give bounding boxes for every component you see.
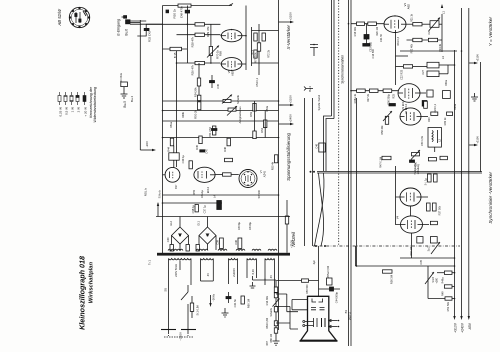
wire: from top bus down — [139, 20, 141, 150]
tube V5 (stabiliser triode) — [163, 167, 180, 188]
svg-text:R53a: R53a — [266, 105, 269, 112]
svg-text:0,25 W: 0,25 W — [59, 107, 63, 117]
capacitor C56 350p — [388, 93, 396, 106]
wire: +310V main rail (vertical) — [278, 0, 280, 330]
svg-text:1 W: 1 W — [71, 107, 75, 113]
svg-text:R34 20k: R34 20k — [194, 87, 198, 97]
svg-text:C44 500p: C44 500p — [335, 291, 339, 303]
arrow: L1 top feed — [441, 4, 443, 8]
resistor R30 1k — [178, 4, 191, 7]
capacitor C31 — [422, 101, 427, 107]
rectifier bridge Gl.2 — [169, 217, 189, 251]
svg-text:+310V: +310V — [476, 136, 480, 144]
svg-text:R51 50k: R51 50k — [447, 301, 450, 311]
svg-text:~50Hz: ~50Hz — [212, 293, 216, 301]
resistor R21 1k — [413, 23, 422, 26]
svg-text:R31 0,3: R31 0,3 — [397, 36, 400, 45]
capacitor C36a — [417, 237, 423, 243]
node dots on rails — [162, 23, 463, 299]
resistor R28 47k — [195, 33, 205, 36]
svg-text:R72 2k: R72 2k — [268, 49, 271, 58]
wire: left stage bus — [162, 6, 164, 254]
arrow +310V mid — [279, 104, 291, 106]
svg-text:R55a 0,5M: R55a 0,5M — [327, 266, 330, 278]
svg-text:C41 5n: C41 5n — [233, 298, 237, 307]
svg-text:C36: C36 — [234, 239, 238, 244]
resistor R19 — [357, 22, 365, 25]
svg-text:R27 2k: R27 2k — [367, 93, 370, 102]
svg-text:V7: V7 — [259, 169, 263, 173]
svg-text:+310V: +310V — [289, 12, 293, 21]
wire: L1 feed — [441, 14, 443, 52]
svg-text:817: 817 — [174, 184, 178, 189]
resistor R27 — [369, 89, 378, 92]
svg-text:-65V: -65V — [468, 322, 472, 330]
svg-text:Schärfe: Schärfe — [270, 307, 273, 316]
svg-text:R45: R45 — [195, 144, 199, 149]
wire: sync pair jog — [324, 116, 335, 171]
svg-text:R49a: R49a — [442, 277, 445, 284]
wire: anode line h4 — [163, 137, 279, 139]
wire: crt feed — [356, 265, 455, 267]
svg-text:R66 1M: R66 1M — [270, 334, 273, 343]
svg-text:R21 1k: R21 1k — [411, 13, 414, 22]
svg-text:E-Eingang: E-Eingang — [117, 19, 121, 36]
label -20V arrow — [140, 149, 152, 151]
svg-text:220V 50Hz: 220V 50Hz — [174, 263, 178, 277]
wire: right edge rail — [480, 62, 482, 172]
resistor R45 on h4 — [199, 136, 202, 144]
svg-text:+310V: +310V — [454, 322, 458, 333]
wire: supply branch — [304, 98, 306, 246]
resistor R26a — [357, 89, 366, 92]
svg-text:+160: +160 — [436, 277, 439, 283]
svg-text:R14 30k: R14 30k — [266, 295, 269, 305]
potentiometer R69/R70 — [207, 46, 223, 59]
potentiometer Helligkeit — [411, 150, 420, 175]
resistor R50 (between h1 and h2) — [198, 102, 201, 110]
svg-text:Kleinoszillograph 018: Kleinoszillograph 018 — [78, 256, 87, 330]
capacitor C40 — [166, 237, 173, 251]
wire: rectifier mid line with left arrow — [156, 216, 290, 218]
svg-text:6,3V: 6,3V — [251, 269, 255, 275]
wire: crt anode drop — [318, 246, 320, 296]
svg-text:R25: R25 — [393, 93, 396, 98]
capacitor C49 1uF (paper) — [169, 146, 185, 168]
svg-text:C54 0,1: C54 0,1 — [256, 77, 259, 86]
wire: interstage — [396, 55, 409, 57]
wire: screened horizontal bus (thick) — [317, 170, 482, 172]
svg-text:R26a 1k: R26a 1k — [354, 93, 357, 103]
svg-text:+240V: +240V — [461, 322, 465, 333]
resistor R37 — [433, 203, 437, 211]
svg-text:Schärfe: Schärfe — [236, 94, 240, 103]
wire: V1b anode drop — [198, 63, 200, 101]
transformer secondary 4V winding — [201, 259, 214, 282]
tube V4a — [397, 188, 429, 219]
node dots on deflection bus — [315, 245, 317, 247]
wire: supply branch 2 — [312, 98, 314, 246]
ground symbol (divider bottom) — [273, 341, 280, 345]
svg-text:R77 10k: R77 10k — [254, 52, 258, 63]
svg-text:Synchr. fremd: Synchr. fremd — [318, 94, 321, 110]
svg-text:R67: R67 — [266, 340, 269, 345]
svg-text:R51a: R51a — [170, 121, 173, 128]
svg-text:Gl.1: Gl.1 — [197, 220, 201, 225]
svg-text:2x300V: 2x300V — [232, 268, 236, 277]
svg-text:R20 1M: R20 1M — [376, 27, 379, 36]
svg-text:R32 1k: R32 1k — [444, 117, 447, 126]
wire: grid line 1 — [146, 23, 220, 25]
wire: crossing deflection leads — [319, 173, 324, 246]
svg-text:L3: L3 — [441, 56, 445, 60]
resistor R33 — [403, 65, 412, 68]
wire: anode line h2 — [163, 110, 279, 112]
svg-text:C47: C47 — [205, 148, 209, 153]
svg-text:C38 1µ: C38 1µ — [191, 205, 195, 214]
wire: grid line 2 — [177, 34, 221, 36]
wire: divider top feed — [253, 276, 277, 288]
transformer secondary winding 4 — [247, 259, 257, 279]
capacitor C13 500 — [363, 44, 375, 59]
CRT deflection plates — [303, 318, 325, 327]
resistor R51 50k — [428, 297, 455, 312]
tube V1 (AB1) — [384, 3, 413, 33]
svg-text:Bu.3: Bu.3 — [308, 86, 312, 92]
wire: anode vertical — [245, 6, 247, 71]
resistor C50 network — [427, 90, 433, 97]
svg-text:Tr.1: Tr.1 — [148, 260, 152, 265]
ground symbol y-amp — [471, 93, 478, 101]
capacitor C48a (bus cap) — [166, 10, 169, 14]
wire: V1-V2 coupling — [395, 30, 397, 85]
ground symbol left of divider — [250, 282, 256, 288]
tube V3 — [400, 108, 428, 125]
svg-text:X-Verstärker: X-Verstärker — [286, 24, 291, 50]
stabiliser column parts — [249, 101, 267, 139]
svg-text:R60 1M: R60 1M — [247, 299, 251, 308]
misc value labels (texture) — [170, 29, 457, 278]
svg-text:C50 1,5k: C50 1,5k — [421, 135, 424, 146]
svg-text:Widerstandsbelastung: Widerstandsbelastung — [93, 87, 97, 123]
tube V1a (EF14) — [220, 29, 246, 42]
resistor R34 — [197, 78, 200, 86]
svg-text:R56 3M: R56 3M — [390, 275, 394, 284]
svg-text:0,5 W: 0,5 W — [65, 107, 69, 115]
wire: mid vertical — [210, 24, 212, 63]
resistor R22 — [413, 38, 422, 41]
wire: top feeder — [163, 5, 233, 7]
wire: +240V distribution with arrow — [461, 8, 463, 316]
tube V6 (stabiliser pentode) — [194, 167, 215, 193]
svg-text:R58 40k: R58 40k — [381, 125, 384, 135]
potentiometer Bildlage on h2 — [227, 106, 242, 124]
capacitor C30 100p — [410, 160, 418, 167]
wire: +310V distribution with arrow — [454, 50, 456, 316]
svg-text:C21 50: C21 50 — [380, 33, 383, 42]
svg-text:R69: R69 — [219, 51, 223, 57]
resistor R71 — [254, 33, 257, 41]
inductor L1 variable — [422, 11, 446, 31]
svg-text:+310V: +310V — [290, 240, 294, 248]
svg-text:R28 47k: R28 47k — [191, 36, 195, 47]
wire: centre double bus — [348, 0, 350, 346]
resistor R26 47k — [195, 61, 205, 64]
resistor R45a 1M — [440, 156, 447, 159]
svg-text:C56 350p: C56 350p — [388, 93, 391, 104]
svg-text:R53: R53 — [249, 111, 253, 116]
svg-text:C39: C39 — [216, 239, 220, 244]
resistor R49 — [442, 285, 455, 296]
svg-text:R22 40k: R22 40k — [411, 43, 414, 53]
wire: Synchronisierwaehler dotted bus — [338, 0, 340, 246]
switch S1 contacts — [310, 44, 318, 56]
transformer core Tr.1 (solid bar) — [157, 253, 290, 256]
svg-text:AB2: AB2 — [407, 4, 411, 10]
node: deflection takeoff dots — [310, 171, 312, 173]
switch Sy.2 arrow across bus — [431, 242, 440, 254]
resistor R68 — [443, 91, 451, 99]
wire: sync takeoff pair — [331, 0, 333, 116]
svg-text:+310V: +310V — [289, 95, 293, 104]
wire: regulator feed vertical — [286, 200, 288, 253]
svg-text:+240V: +240V — [289, 114, 293, 123]
resistor B15 (R35) — [163, 48, 188, 50]
resistor R61 (mains series) — [190, 296, 199, 318]
svg-text:C34 8µ: C34 8µ — [249, 221, 252, 230]
svg-text:-20V: -20V — [145, 141, 149, 147]
arrow +240V mid — [279, 123, 291, 125]
wire: y-amp top link — [400, 50, 457, 52]
resistor R36 — [427, 203, 431, 211]
wire: divider taps to crt socket — [276, 294, 290, 323]
resistor R59 900 — [302, 279, 310, 294]
capacitor C44 500p — [319, 287, 341, 303]
resistor R73 — [254, 50, 257, 58]
inductor L3 block — [427, 56, 455, 77]
resistor R49a — [437, 271, 455, 283]
capacitor C43 (input coupling) — [144, 28, 149, 30]
tube V4b — [401, 216, 430, 233]
resistor R31a — [424, 101, 428, 108]
switch S5 — [164, 285, 189, 326]
wire: x-amp coupling rows — [252, 27, 279, 66]
svg-text:R49: R49 — [442, 291, 445, 296]
wire: netzteil to crt link — [355, 246, 357, 266]
svg-text:Wirkschaltplan: Wirkschaltplan — [89, 262, 95, 304]
wire: stabiliser line h1 — [163, 100, 279, 102]
svg-text:R46: R46 — [223, 146, 227, 151]
svg-text:R26 47k: R26 47k — [191, 64, 195, 75]
resistor R48 between V6 and V7s — [223, 173, 232, 176]
transformer secondary winding 3 — [229, 259, 238, 285]
wire: grid bias row — [277, 280, 319, 282]
resistor R44 on h4 — [170, 138, 173, 146]
capacitor C53 — [364, 24, 373, 52]
wire: grid line 3 — [177, 62, 221, 64]
wire: input to grid — [130, 21, 163, 36]
svg-text:C30: C30 — [415, 161, 418, 166]
resistor R55 on +310 rail — [275, 155, 278, 163]
svg-text:StV100: StV100 — [257, 189, 261, 198]
svg-text:Bu.5: Bu.5 — [123, 101, 127, 108]
inductor L2 assembly — [428, 128, 442, 153]
capacitor C51/C52 pair — [208, 126, 217, 137]
svg-text:Spannungsstabilisierung: Spannungsstabilisierung — [286, 132, 291, 180]
wire: rectifier top line — [163, 202, 223, 204]
connector Bu.6 input socket — [122, 16, 131, 36]
svg-text:R59 900: R59 900 — [306, 284, 309, 294]
tube socket base view V1 (AB 52/W) — [69, 7, 89, 27]
resistor R77 10k — [257, 43, 260, 51]
svg-text:L1: L1 — [442, 11, 446, 15]
transformer primary 220V winding — [169, 259, 192, 301]
tube V1b (EF14) — [220, 58, 246, 72]
svg-text:Bu.6: Bu.6 — [125, 29, 129, 36]
svg-text:C40: C40 — [166, 237, 170, 242]
connector Bu.4 with ground — [119, 73, 134, 102]
svg-text:R19 40k: R19 40k — [354, 26, 357, 36]
resistor R40 — [428, 158, 436, 161]
svg-text:NSL b: NSL b — [144, 188, 148, 197]
resistor R32 1k — [447, 112, 453, 115]
arrow +310V right — [469, 54, 480, 64]
svg-text:Bu.4: Bu.4 — [130, 96, 134, 103]
svg-text:R54: R54 — [260, 127, 264, 132]
svg-text:+ 20 W: + 20 W — [84, 107, 88, 117]
svg-text:Astigmatismus: Astigmatismus — [238, 106, 242, 124]
resistor S-L pair — [425, 174, 438, 185]
svg-text:R37 50k: R37 50k — [439, 205, 442, 215]
wire: y-amp input line — [351, 23, 384, 25]
capacitor C42 — [186, 245, 189, 252]
svg-text:AB2: AB2 — [231, 70, 235, 75]
resistor R43 — [225, 158, 233, 161]
rectifier bridge Gl.1 — [197, 217, 217, 251]
CRT plate pins right — [329, 319, 340, 327]
resistor R56 (crt supply) — [383, 270, 394, 284]
resistor R23 — [431, 112, 438, 115]
inductor L4 (choke, solid) — [217, 201, 222, 210]
label ~50Hz arrow — [209, 293, 215, 307]
svg-text:C46: C46 — [316, 143, 319, 148]
CRT B1 envelope — [300, 296, 338, 341]
switch S4-B — [425, 266, 439, 299]
CRT bias divider chain — [266, 280, 280, 346]
resistor R63 — [196, 245, 199, 252]
svg-text:C48 470p: C48 470p — [180, 6, 184, 19]
resistor R47 — [189, 161, 192, 169]
wire: dash-dot deflection bus — [313, 245, 460, 247]
svg-text:C24 0,1: C24 0,1 — [434, 103, 437, 112]
svg-text:C3a 1µ: C3a 1µ — [201, 189, 204, 198]
svg-text:50 Ohm: 50 Ohm — [119, 73, 123, 82]
svg-text:C25: C25 — [428, 29, 431, 34]
svg-text:R29a: R29a — [454, 103, 457, 110]
resistor R47 0.1M — [380, 156, 392, 168]
svg-text:4V: 4V — [269, 275, 273, 278]
svg-text:R23: R23 — [428, 117, 431, 122]
svg-text:S-L 1µ: S-L 1µ — [425, 177, 428, 185]
wire: anode line h3 — [163, 120, 279, 122]
capacitor C46 — [316, 143, 326, 152]
svg-text:~220V: ~220V — [179, 332, 183, 341]
svg-text:C45: C45 — [216, 83, 220, 88]
resistor R52 above h1 — [198, 95, 201, 100]
svg-text:C13 500: C13 500 — [372, 48, 375, 58]
resistor R39 — [430, 221, 437, 224]
svg-text:C22 R33: C22 R33 — [401, 69, 404, 79]
capacitor C48 470p — [186, 6, 188, 25]
svg-text:C35: C35 — [420, 259, 423, 264]
svg-text:C51 C52: C51 C52 — [208, 126, 212, 137]
wire: screen row — [407, 39, 443, 41]
capacitor C38 1u — [191, 205, 207, 214]
wire: left socket feeds — [292, 300, 308, 310]
svg-text:R64 0,3M: R64 0,3M — [266, 318, 269, 329]
wire: top bus arrow end — [229, 4, 233, 6]
wire: netzteil link — [400, 257, 455, 259]
svg-text:R30 1k: R30 1k — [173, 9, 177, 19]
svg-text:S5: S5 — [164, 288, 168, 292]
node dot — [245, 35, 247, 37]
resistor R38 — [428, 237, 438, 252]
svg-text:C33 8µ: C33 8µ — [238, 221, 241, 230]
svg-text:EF14: EF14 — [206, 186, 210, 193]
svg-text:C37 1µ: C37 1µ — [203, 205, 207, 214]
tube V7 socket view — [239, 170, 261, 199]
svg-text:R50 2k: R50 2k — [194, 109, 198, 118]
CRT heater / cathode — [311, 299, 325, 310]
capacitor C45 — [210, 75, 221, 89]
ground symbol (mains filter) — [222, 308, 229, 317]
capacitor C47 — [200, 150, 205, 152]
svg-text:Y = Verstärker: Y = Verstärker — [488, 17, 493, 47]
potentiometer Schaerfe on h1 — [222, 94, 240, 103]
resistor R58 40k with switch — [381, 111, 392, 135]
legend: resistor wattage marking (Kennzeichnung der Widerstandsbelastung) — [58, 86, 97, 122]
svg-text:R33 C43: R33 C43 — [148, 31, 152, 42]
wire: bias vertical — [186, 24, 188, 63]
svg-text:C49 1µ: C49 1µ — [181, 155, 185, 164]
svg-text:V3 EF14: V3 EF14 — [401, 99, 405, 110]
svg-text:R55 4k: R55 4k — [271, 161, 275, 170]
wire: y-amp left rail — [356, 98, 358, 266]
resistor R24 — [428, 38, 437, 41]
svg-text:4V: 4V — [206, 273, 210, 276]
svg-text:2 W: 2 W — [77, 107, 81, 113]
capacitor C36 — [234, 238, 242, 249]
resistor R46 on h4 — [227, 138, 230, 146]
svg-text:R49b: R49b — [182, 111, 185, 118]
wire: v4 cathode drops — [396, 166, 412, 258]
arrow +310V at L2 — [469, 136, 480, 146]
resistor R29 47k — [195, 23, 205, 26]
svg-text:B 15: B 15 — [173, 52, 177, 58]
svg-text:C27: C27 — [422, 69, 425, 74]
wire: cathode row — [351, 90, 398, 92]
svg-text:R24 4k: R24 4k — [439, 43, 442, 52]
svg-text:Sy.2: Sy.2 — [428, 246, 431, 251]
resistor R62 — [285, 216, 288, 224]
svg-text:AB 52/W: AB 52/W — [57, 8, 62, 27]
svg-text:Synchronisierwähler: Synchronisierwähler — [341, 54, 345, 84]
connector Bu.3 — [304, 86, 321, 111]
wire: -65V distribution with arrow — [468, 8, 470, 316]
svg-text:Synchronisier -Verstärker: Synchronisier -Verstärker — [488, 172, 493, 224]
resistor R20 — [368, 22, 377, 25]
tube V2 (EF14) — [398, 84, 426, 114]
